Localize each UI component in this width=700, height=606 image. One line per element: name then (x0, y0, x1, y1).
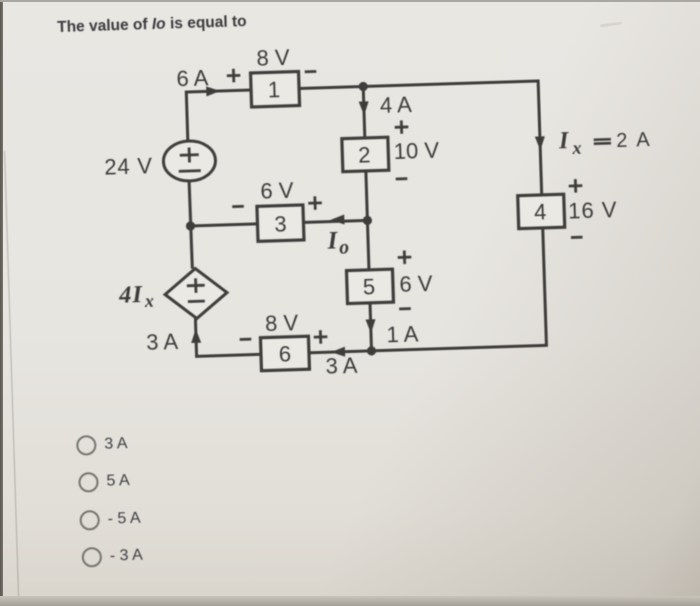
label 16 V (box 4) (568, 197, 618, 224)
svg-text:6 V: 6 V (399, 271, 433, 297)
node A dot (left middle) (186, 221, 195, 230)
label 4Ix (dependent source) (118, 281, 154, 312)
svg-text:Io: Io (326, 227, 349, 259)
arrow Io current (left) (330, 215, 344, 225)
wire left rail upper: top corner down to source V1 (186, 91, 188, 141)
svg-text:24 V: 24 V (104, 153, 153, 180)
photo edge: top strip (0, 0, 700, 2)
wire middle rail upper: node B to box 2 (363, 86, 365, 137)
resistor box 2 (342, 137, 389, 171)
answer option A text 3 A (104, 435, 128, 454)
svg-text:10 V: 10 V (393, 138, 439, 164)
label 24 V (source V1) (104, 153, 153, 180)
sign + (box 4 top) (569, 179, 583, 193)
svg-text:8 V: 8 V (265, 310, 299, 336)
svg-text:3 A: 3 A (325, 353, 358, 379)
dependent source 4Ix (diamond) (164, 268, 228, 320)
wire right rail lower: box 4 to bottom-right corner (543, 228, 547, 347)
label 4 A (380, 92, 413, 118)
sign - (box 3 left) (232, 205, 244, 208)
sign - (box 4 bottom) (571, 236, 583, 239)
node C dot (centre Io junction) (363, 216, 372, 225)
voltage source V1 24V (circle) (163, 140, 216, 182)
label Ix = 2 A (558, 125, 651, 158)
label 1 A (386, 321, 419, 347)
arrow 6A current (right) (206, 86, 220, 96)
answer option B text 5 A (106, 472, 130, 491)
label 8 V (box 6) (265, 310, 299, 336)
arrow 3A current (left, bottom wire) (331, 347, 345, 357)
wire mid horizontal right: box 3 to node C (303, 220, 367, 222)
photo artifact: faint dash top right (600, 21, 622, 27)
sign - (box 2 bottom) (396, 177, 408, 180)
resistor box 3 (257, 205, 304, 241)
photo edge: bottom strip (0, 596, 700, 606)
svg-text:8 V: 8 V (256, 45, 290, 71)
label 3 A (bottom wire) (325, 353, 358, 379)
photo edge: left dark strip (0, 0, 3, 606)
answer option C text -5 A (107, 509, 140, 528)
arrow 1A current (down, above node D) (366, 319, 376, 333)
sign + (box 3 right) (308, 196, 322, 210)
svg-text:4Ix: 4Ix (118, 281, 154, 312)
sign - (box 5 bottom) (399, 307, 411, 310)
wire bottom-left: bottom-left corner to box 6 (195, 354, 261, 356)
label 6 A (176, 65, 209, 91)
label 10 V (box 2) (393, 138, 439, 164)
svg-text:3: 3 (274, 211, 287, 236)
label 3 A (left rail) (146, 329, 179, 355)
sign + (box 2 top) (394, 120, 408, 134)
svg-text:6 A: 6 A (176, 65, 209, 91)
svg-text:Ix2A: Ix2A (558, 125, 651, 158)
svg-text:1 A: 1 A (386, 321, 419, 347)
answer option B radio (78, 472, 99, 493)
answer option D text -3 A (110, 547, 143, 566)
arrow 3A up (left rail) (191, 329, 201, 343)
node D dot (bottom middle) (367, 346, 376, 355)
resistor box 4 (518, 194, 565, 228)
sign - (box 1 right) (305, 70, 317, 73)
sign + (box 1 left) (227, 69, 241, 83)
svg-text:3 A: 3 A (146, 329, 179, 355)
sign + (box 6 right) (314, 330, 328, 344)
svg-text:16 V: 16 V (568, 197, 618, 224)
resistor box 1 (251, 72, 300, 107)
svg-text:2: 2 (358, 142, 371, 167)
label 8 V (box 1) (256, 45, 290, 71)
answer option D radio (82, 547, 103, 568)
sign + (box 5 top) (397, 250, 411, 264)
arrow Ix current (down) (535, 136, 545, 150)
wire top-right: box 1 to top-right corner (299, 81, 538, 89)
svg-text:1: 1 (268, 77, 281, 102)
svg-text:4 A: 4 A (380, 92, 413, 118)
svg-text:6 V: 6 V (260, 178, 294, 204)
sign - (box 6 left) (240, 338, 252, 341)
label 6 V (box 5) (399, 271, 433, 297)
wire bottom-right: node D to bottom-right corner (372, 345, 547, 350)
wire left rail lower: dependent source bottom to bottom-left corner (195, 319, 196, 358)
label 6 V (box 3) (260, 178, 294, 204)
wire top-left: left rail top corner to box 1 (186, 90, 251, 92)
answer option A radio (76, 435, 97, 456)
svg-text:6: 6 (278, 341, 291, 366)
arrow 4A current (down) (359, 101, 369, 115)
wire middle rail mid: box 2 to node C (366, 171, 369, 270)
node B dot (top middle) (358, 82, 367, 91)
resistor box 5 (346, 269, 393, 303)
answer option C radio (80, 510, 101, 531)
resistor box 6 (260, 336, 309, 370)
svg-text:4: 4 (534, 199, 547, 224)
svg-text:5: 5 (362, 274, 375, 299)
wire right rail upper: top-right corner to box 4 (538, 79, 542, 194)
label Io (current name) (326, 227, 349, 259)
wire mid horizontal left: node A to box 3 (191, 224, 258, 226)
wire left rail mid: source V1 to node A and on to dependent source top (189, 181, 192, 269)
wire middle rail lower: box 5 to node D (370, 303, 372, 351)
photo artifact: faint screen edge line left (4, 151, 20, 606)
wire bottom-mid: box 6 to node D (309, 351, 372, 353)
